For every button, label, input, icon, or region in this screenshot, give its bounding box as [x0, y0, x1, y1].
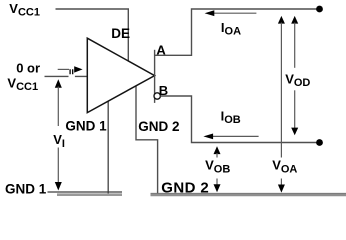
measurement arrow VOA from A to GND2 rail: [278, 16, 285, 193]
driver U1 triangle: [87, 38, 154, 112]
measurement arrow VOB from B to GND2 rail: [214, 146, 221, 192]
svg-text:IOA: IOA: [221, 20, 241, 38]
current arrow IOB: [203, 134, 258, 140]
wire A net: [155, 9, 320, 55]
node A terminal dot: [316, 6, 323, 13]
svg-text:VCC1: VCC1: [7, 75, 38, 93]
svg-text:GND 1: GND 1: [5, 182, 47, 197]
label VOB background: [204, 158, 239, 179]
measurement arrow VI: [55, 79, 62, 190]
ground rail GND1 dark line: [48, 191, 123, 193]
current arrow IOA: [205, 10, 257, 16]
wire input: [45, 75, 88, 77]
svg-text:GND 1: GND 1: [65, 119, 107, 134]
wire GND1 from driver to rail: [107, 101, 109, 195]
svg-text:DE: DE: [111, 26, 130, 41]
ground rail GND2 top edge: [151, 192, 346, 194]
wire VCC1 supply to DE pin: [56, 9, 129, 61]
svg-text:GND 2: GND 2: [138, 119, 179, 134]
svg-text:GND 2: GND 2: [161, 180, 209, 197]
svg-text:VI: VI: [53, 132, 65, 150]
svg-text:IOB: IOB: [221, 109, 241, 127]
ground rail GND2 gray bar: [151, 194, 346, 197]
svg-text:0 or: 0 or: [16, 61, 40, 76]
label VOA background: [271, 158, 307, 179]
measurement arrow VOD between A and B: [291, 16, 298, 135]
label VOD background: [284, 68, 317, 91]
wire B net: [160, 96, 319, 143]
node B terminal dot: [316, 139, 323, 146]
wire GND2 from driver to rail: [136, 86, 158, 194]
svg-text:VCC1: VCC1: [9, 1, 40, 19]
ground rail GND1 gray bar: [57, 193, 122, 196]
node A pin stub and apex line: [154, 50, 156, 103]
inversion bubble pin B: [154, 93, 160, 99]
input current arrow II: [58, 66, 83, 74]
